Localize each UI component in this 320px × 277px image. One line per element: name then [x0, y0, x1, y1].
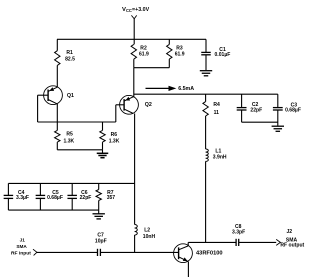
svg-text:61.9: 61.9 [139, 52, 149, 58]
svg-text:6.5mA: 6.5mA [178, 86, 194, 92]
svg-text:R6: R6 [111, 132, 118, 138]
svg-text:RF input: RF input [11, 250, 31, 256]
svg-text:22pF: 22pF [80, 195, 92, 201]
svg-text:1.3K: 1.3K [109, 138, 120, 144]
svg-text:1.3K: 1.3K [64, 138, 75, 144]
svg-text:J2: J2 [287, 229, 293, 235]
svg-text:82.5: 82.5 [65, 56, 75, 62]
svg-text:SMA: SMA [16, 244, 27, 249]
svg-text:22pF: 22pF [250, 108, 262, 114]
svg-text:3.9nH: 3.9nH [213, 155, 227, 161]
svg-text:11: 11 [214, 110, 220, 116]
svg-text:J1: J1 [20, 238, 26, 243]
svg-text:R5: R5 [66, 131, 73, 137]
svg-text:R4: R4 [213, 102, 220, 108]
svg-text:61.9: 61.9 [175, 52, 185, 58]
svg-text:10nH: 10nH [143, 234, 156, 240]
svg-text:L1: L1 [215, 148, 221, 154]
svg-text:RF output: RF output [280, 243, 304, 249]
svg-text:L2: L2 [144, 228, 150, 234]
svg-text:43RF0100: 43RF0100 [196, 250, 223, 256]
svg-text:10pF: 10pF [95, 238, 107, 244]
svg-text:Q2: Q2 [145, 102, 152, 108]
svg-text:R1: R1 [66, 50, 73, 56]
svg-text:VCC=+3.0V: VCC=+3.0V [122, 7, 150, 13]
svg-text:0.68µF: 0.68µF [47, 195, 63, 201]
svg-text:Q1: Q1 [67, 93, 74, 99]
svg-text:3.3µF: 3.3µF [16, 195, 29, 201]
svg-text:0.68µF: 0.68µF [285, 108, 301, 114]
svg-text:0.01µF: 0.01µF [215, 52, 231, 58]
svg-text:3.3pF: 3.3pF [232, 229, 245, 235]
svg-text:357: 357 [107, 195, 116, 201]
